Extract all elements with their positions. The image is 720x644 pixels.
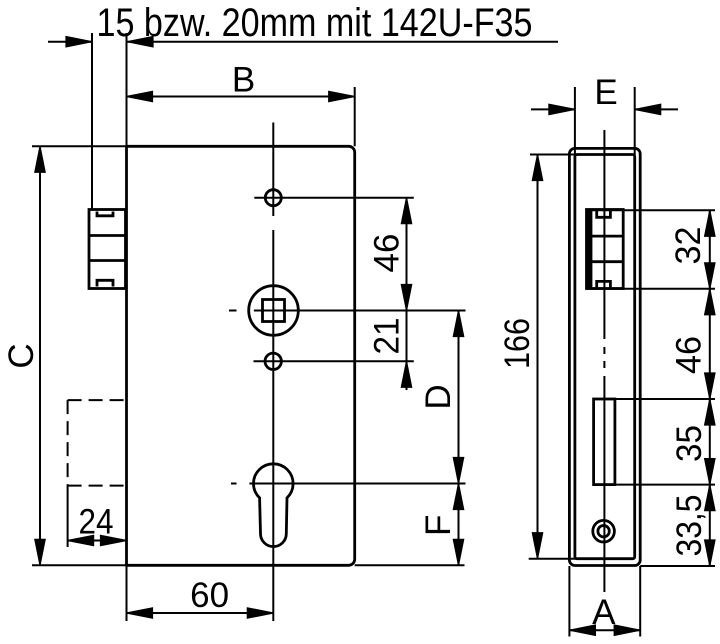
- svg-text:33,5: 33,5: [670, 495, 709, 557]
- svg-text:C: C: [2, 343, 41, 368]
- svg-text:21: 21: [367, 318, 406, 355]
- svg-text:E: E: [594, 73, 617, 112]
- dimension 60: [127, 565, 274, 621]
- dimension 24: [68, 486, 127, 547]
- extension line latch face: [91, 33, 93, 210]
- svg-text:24: 24: [79, 502, 114, 541]
- svg-text:F: F: [419, 515, 458, 536]
- screw hole side view: [593, 520, 615, 542]
- dimension 46 front: [367, 198, 411, 311]
- svg-text:46: 46: [367, 234, 406, 273]
- follower hole with square nut: [229, 286, 466, 336]
- dimension 21: [367, 311, 411, 391]
- centre line side view: [603, 130, 605, 592]
- dimension C: [2, 146, 45, 565]
- extension lines right column: [587, 210, 716, 566]
- lower screw hole: [254, 353, 414, 369]
- latch bolt front view: [89, 210, 126, 289]
- dimension A: [569, 566, 640, 637]
- case outline top edge and right edge: [32, 146, 465, 565]
- dimension 46 side: [669, 289, 715, 399]
- vertical centre line front view: [272, 123, 274, 622]
- svg-text:46: 46: [669, 336, 708, 374]
- dimension 166: [498, 155, 577, 559]
- euro profile cylinder hole: [231, 464, 466, 547]
- svg-text:32: 32: [669, 227, 708, 265]
- dimension 35: [670, 399, 715, 485]
- side view case inner: [575, 155, 635, 559]
- upper screw hole: [254, 190, 413, 206]
- svg-text:60: 60: [190, 576, 229, 615]
- svg-text:166: 166: [498, 318, 537, 369]
- latch bolt side view: [587, 210, 624, 289]
- dimension F: [419, 484, 464, 566]
- case left edge with upper extension: [126, 33, 128, 565]
- svg-text:15 bzw. 20mm mit 142U-F35: 15 bzw. 20mm mit 142U-F35: [97, 1, 533, 45]
- dimension 33,5: [670, 485, 715, 566]
- hidden outline dashed box: [68, 400, 127, 486]
- dimension B: [127, 61, 355, 147]
- dimension 15 leader line under title: [48, 37, 558, 47]
- svg-text:B: B: [232, 61, 255, 100]
- svg-text:35: 35: [670, 425, 709, 462]
- dimension E: [531, 73, 678, 155]
- dimension D: [419, 311, 464, 484]
- dimension 32: [669, 210, 715, 566]
- deadbolt slot side view: [594, 399, 615, 485]
- svg-text:D: D: [419, 384, 458, 409]
- side view faceplate outer: [569, 148, 640, 565]
